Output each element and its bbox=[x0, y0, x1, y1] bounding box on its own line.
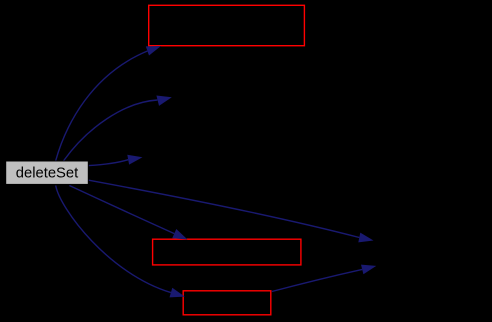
node deleteSet (current node, grey) bbox=[6, 161, 89, 184]
node box3 (red outline, bottom) bbox=[183, 291, 271, 315]
arrowhead A3 bbox=[127, 155, 142, 165]
wire E3 deleteSet -> hidden node bbox=[89, 160, 129, 166]
wire E6 deleteSet -> box3 bbox=[56, 186, 171, 293]
arrowhead A5 bbox=[172, 229, 187, 240]
svg-text:deleteSet: deleteSet bbox=[16, 165, 79, 181]
arrowhead A1 bbox=[146, 46, 161, 56]
arrowhead A4 bbox=[358, 233, 373, 243]
arrowhead A7 bbox=[361, 265, 376, 275]
wire E2 deleteSet -> hidden node bbox=[64, 100, 158, 161]
wire E4 deleteSet -> hidden right node bbox=[89, 180, 360, 237]
wire E5 deleteSet -> box2 bbox=[69, 186, 174, 234]
wire E7 box3 -> hidden right node bbox=[272, 269, 362, 291]
node box2 (red outline, middle) bbox=[153, 239, 301, 265]
wire E1 deleteSet -> box1 bbox=[56, 51, 148, 161]
arrowhead A6 bbox=[170, 288, 185, 298]
node box1 (red outline, top) bbox=[149, 5, 305, 45]
arrowhead A2 bbox=[156, 96, 171, 106]
